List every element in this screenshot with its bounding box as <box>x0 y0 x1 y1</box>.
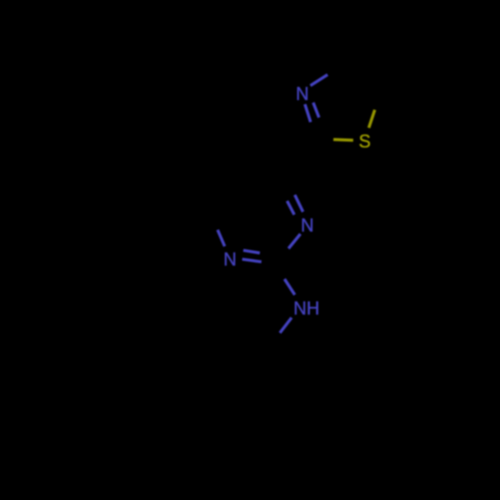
wire N3(thiazole)-C4 half-bond <box>310 75 327 86</box>
wire S1-C5 half-bond <box>369 110 375 128</box>
wire NH-phenyl half-bond <box>280 318 292 333</box>
wire C6-N1 half-bond <box>218 230 225 247</box>
svg-text:N: N <box>224 249 237 269</box>
wire C4=N3(pyrimidine) inner half-bond <box>287 201 294 215</box>
svg-text:NH: NH <box>294 299 320 319</box>
svg-text:S: S <box>359 132 371 152</box>
svg-text:N: N <box>296 84 309 104</box>
wire S1-C2 half-bond <box>333 138 353 142</box>
wire N1=C2 main half-bond <box>242 259 261 262</box>
wire N3(thiazole)=C2 inner half-bond <box>313 103 319 118</box>
wire C2-NH half-bond <box>285 279 295 295</box>
wire C4=N3(pyrimidine) main half-bond <box>295 195 303 212</box>
wire N1=C2 inner half-bond <box>243 250 259 253</box>
svg-text:N: N <box>301 216 314 236</box>
wire N3(thiazole)=C2 main half-bond <box>305 104 311 122</box>
wire N3(pyrimidine)-C2 half-bond <box>289 234 301 249</box>
